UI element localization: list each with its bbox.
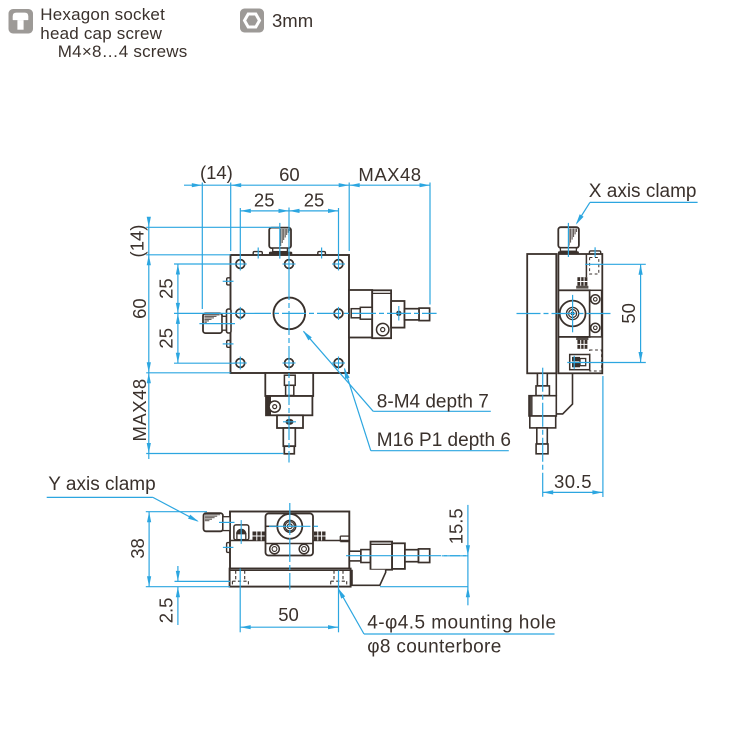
top view: X drive inner screw step 2 [360, 307, 372, 319]
front view: knurled screw right [314, 532, 326, 541]
top view: X drive mid block dot [396, 311, 401, 316]
front view: left cap screw block [234, 520, 249, 544]
front view: vertical centerline through housing [289, 503, 291, 590]
top view: Y drive spindle tip [284, 446, 294, 454]
side view: Y spindle tip [536, 444, 548, 454]
svg-text:60: 60 [279, 164, 300, 185]
side view: knurled screw top [576, 277, 588, 288]
dimension MAX48 vertical left [129, 373, 283, 454]
svg-text:30.5: 30.5 [554, 471, 592, 492]
svg-text:Hexagon socket: Hexagon socket [40, 5, 165, 24]
svg-text:38: 38 [127, 538, 148, 559]
label: 8-M4 depth 7 with leader [303, 331, 491, 413]
svg-text:M16 P1 depth 6: M16 P1 depth 6 [377, 430, 511, 451]
front view: micrometer barrel circles [277, 514, 302, 539]
top view: Y drive clamp screw circles [269, 401, 280, 412]
side view: left slab (table edge) [527, 254, 556, 373]
dimension 15.5 front view [380, 505, 470, 605]
top view: Y drive spindle [283, 428, 295, 446]
side view: Y spindle [537, 428, 548, 444]
dimension 38 front view [127, 512, 207, 587]
top view: X drive inner screw step 1 [351, 309, 360, 318]
top view: X drive bracket (right) [349, 290, 372, 338]
top view: stage body square 60x60 [231, 255, 350, 373]
top view: cyan tick through top tab right [321, 248, 323, 259]
top view: Y drive lower block [277, 415, 303, 428]
dimension (14) vertical left [127, 217, 151, 459]
side view: hidden pocket bottom right (dashed) [590, 350, 602, 371]
top view: top edge tab right [318, 252, 326, 255]
front view: base [230, 569, 351, 587]
dimension 60 vertical left [129, 255, 231, 373]
header text: hexagon socket head cap screw [40, 5, 187, 61]
svg-text:25: 25 [254, 190, 275, 211]
svg-text:15.5: 15.5 [446, 508, 467, 544]
top view: X clamp knob axis tick [199, 323, 235, 325]
dimension 60 horizontal top [184, 164, 430, 251]
top view: Y drive inner screw step 1 [284, 375, 295, 385]
svg-text:MAX48: MAX48 [358, 164, 421, 185]
top view: vertical centerline Y axis [288, 208, 290, 277]
svg-text:25: 25 [304, 190, 325, 211]
side view: hidden pocket top right (dashed) [590, 258, 599, 275]
svg-text:φ8 counterbore: φ8 counterbore [367, 637, 501, 658]
front view: left edge tab [227, 543, 230, 553]
svg-text:2.5: 2.5 [156, 598, 177, 624]
top view: X drive spindle [405, 309, 420, 320]
top view: Y clamp knob (top) [269, 228, 292, 255]
top view: left edge tab upper [227, 278, 231, 285]
label: Y axis clamp with leader [47, 474, 199, 522]
side view: right strip with two screws [590, 290, 602, 337]
svg-text:25: 25 [156, 328, 177, 349]
dimension MAX48 horizontal top [358, 164, 430, 305]
front view: cyan tick through left tab [223, 546, 234, 548]
front view: Y clamp knob [204, 513, 231, 531]
side view: X clamp knob axis tick [567, 223, 569, 257]
top view: cyan cross ticks on holes [234, 258, 345, 370]
top view: X drive spindle end cap [419, 308, 430, 321]
front view: two housing screws [270, 544, 280, 554]
front view: central housing [266, 514, 314, 556]
side view: barrel vertical tick [572, 295, 574, 332]
top view: Y drive band block [266, 396, 312, 415]
top view: Y drive band dark strip [267, 397, 272, 415]
header icon: hexagon socket head cap screw [9, 9, 34, 34]
svg-text:50: 50 [278, 604, 299, 625]
side view: knurled screw bottom [576, 337, 588, 349]
top view: Y clamp knob axis tick [279, 223, 281, 259]
front view: knurled screw left [253, 532, 266, 541]
side view: bottom screw block [570, 355, 590, 370]
svg-text:8-M4 depth 7: 8-M4 depth 7 [377, 391, 489, 412]
front view: X drive spindle [405, 550, 419, 562]
side view: neck step 2 [536, 386, 549, 396]
label: 4-phi4.5 mounting hole with leader [338, 588, 557, 634]
front view: barrel cross ticks [269, 525, 311, 527]
top view: X drive main block [372, 290, 391, 338]
front view: right edge notch [340, 535, 349, 537]
svg-text:(14): (14) [127, 225, 148, 258]
side view: top-right tab [589, 251, 600, 254]
label: X axis clamp with leader [576, 181, 698, 225]
dimension 25 25 vertical left [156, 264, 237, 363]
front view: X bracket foot [352, 570, 386, 586]
top view: top edge tab left [253, 252, 262, 255]
svg-text:X axis clamp: X axis clamp [589, 181, 697, 202]
svg-text:MAX48: MAX48 [129, 378, 150, 441]
side view: neck step 1 below slab [537, 373, 547, 386]
top view: cyan tick through left tab lower [223, 343, 234, 345]
top view: X drive clamp screw circles [377, 323, 389, 335]
dimension 2.5 front view [146, 566, 230, 625]
svg-text:head cap screw: head cap screw [40, 24, 162, 43]
front view: X axis centerline [346, 555, 431, 557]
side view: bottom screw axis line / 50 lower extension [567, 362, 646, 364]
top view: central circle M16 [274, 298, 306, 330]
svg-text:60: 60 [129, 298, 150, 319]
top view: Y drive wide block (below square) [265, 373, 313, 396]
dimension (14) horizontal top [146, 162, 280, 309]
side view: lower block [529, 396, 556, 416]
dimension 50 front view [240, 569, 338, 633]
side view: X clamp knob [558, 227, 579, 254]
top view: 8 screw holes 8-M4 [236, 260, 343, 368]
dimension 50 side view [585, 264, 646, 362]
top view: cyan tick through left tab upper [223, 280, 234, 282]
label: M16 P1 depth 6 with leader [344, 368, 511, 451]
side view: cyan tick through top-right tab [594, 247, 596, 257]
side view: vertical centerline lower [542, 368, 544, 497]
top view: cyan tick through top tab left [257, 248, 259, 259]
side view: clamp block [530, 416, 556, 428]
side view: horizontal centerline [517, 313, 614, 315]
svg-text:Y axis clamp: Y axis clamp [48, 474, 155, 495]
front view: X drive spindle end cap [419, 549, 430, 563]
svg-text:50: 50 [618, 303, 639, 324]
front view: X drive step 1 [349, 551, 361, 561]
side view: bottom cap screw head [572, 356, 586, 369]
front view: Y clamp knob axis tick [219, 521, 235, 523]
top view: X drive mid block [391, 301, 404, 328]
front view: hidden mounting hole right (dashed) [331, 571, 347, 587]
top view: X clamp knob (left) [203, 309, 231, 333]
side view: column inner vertical line [585, 254, 587, 277]
svg-text:(14): (14) [200, 162, 233, 183]
side view: micrometer barrel circles [560, 301, 586, 327]
front view: X drive step 2 [361, 550, 371, 563]
dimension 25 25 horizontal [240, 190, 338, 260]
dimension 30.5 side view [543, 376, 603, 497]
front view: hidden mounting hole left (dashed) [232, 571, 248, 587]
top view: left edge tab lower [227, 340, 231, 347]
front view: top plate body [230, 512, 349, 569]
front view: X drive main block [371, 542, 393, 570]
top view: Y drive lower block dot [286, 419, 294, 425]
side view: middle block (micrometer housing) [558, 290, 589, 337]
top view: horizontal centerline X axis [174, 312, 247, 314]
svg-text:25: 25 [156, 278, 177, 299]
svg-text:M4×8…4 screws: M4×8…4 screws [58, 42, 188, 61]
front view: X drive right block [392, 543, 405, 569]
top view: Y drive inner screw step 2 [286, 385, 294, 395]
svg-text:4-φ4.5 mounting hole: 4-φ4.5 mounting hole [367, 613, 556, 634]
side view: L-arm outline [556, 373, 573, 416]
side view: right column body [558, 254, 602, 373]
svg-text:3mm: 3mm [272, 10, 313, 31]
header icon: 3mm hex wrench [240, 9, 264, 33]
front view: plate seam lines [230, 540, 266, 542]
